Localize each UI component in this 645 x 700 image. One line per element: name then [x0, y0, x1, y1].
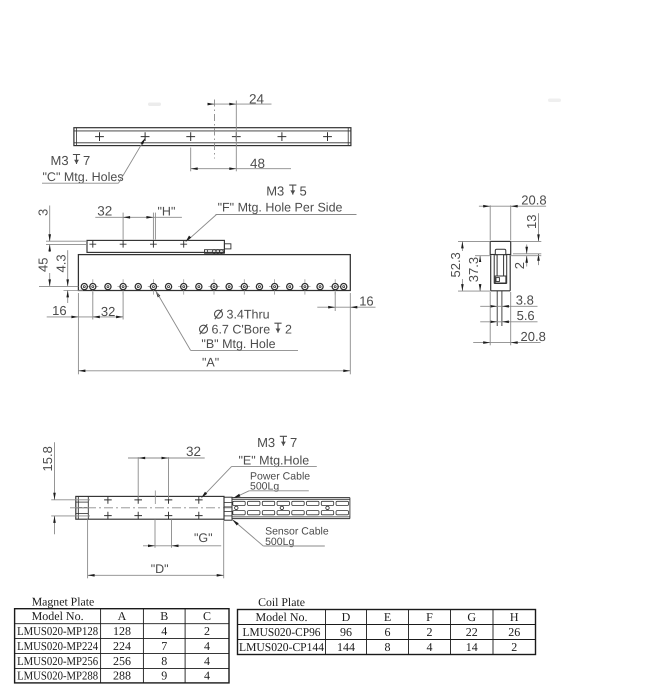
dimension 32 and H (coil plate holes) [95, 203, 182, 239]
dimension 20.8 (top width) [479, 193, 547, 241]
faint scan smudge [148, 103, 161, 107]
label Power Cable 500Lg with leader [233, 471, 310, 499]
dimension 3 (coil plate step) [36, 206, 88, 245]
svg-text:D: D [342, 610, 351, 624]
magnet plate table title [32, 595, 95, 609]
svg-text:Model No.: Model No. [32, 609, 84, 623]
label "C" Mtg. Holes with leader [42, 138, 146, 184]
dimension 4.3 (hole line to bottom) [39, 250, 83, 303]
svg-text:LMUS020-MP256: LMUS020-MP256 [17, 654, 98, 668]
svg-text:LMUS020-MP224: LMUS020-MP224 [17, 639, 98, 653]
svg-text:"E" Mtg.Hole: "E" Mtg.Hole [239, 454, 310, 468]
svg-text:26: 26 [508, 625, 520, 639]
dimension 16 (right edge to hole) [317, 292, 375, 374]
svg-text:4: 4 [427, 640, 433, 654]
svg-text:Model No.: Model No. [256, 610, 308, 624]
svg-text:48: 48 [250, 156, 265, 171]
coil plate left end cap [76, 496, 89, 519]
svg-text:7: 7 [161, 639, 167, 653]
svg-text:144: 144 [337, 640, 355, 654]
svg-text:7: 7 [83, 153, 90, 168]
label M3 depth 7 for E holes [257, 435, 297, 450]
svg-text:37.3: 37.3 [466, 257, 481, 282]
rail mounting hole crosses [95, 132, 332, 141]
svg-text:96: 96 [340, 625, 352, 639]
svg-text:LMUS020-MP288: LMUS020-MP288 [17, 669, 98, 683]
power and sensor cables (flex conduit) [232, 498, 350, 519]
dimension 37.3 (magnet plate height) [466, 256, 491, 291]
coil plate (top view) [76, 496, 224, 519]
coil plate cable connector block [205, 250, 225, 254]
svg-text:4: 4 [204, 669, 210, 683]
svg-text:3.8: 3.8 [516, 292, 534, 307]
svg-text:2: 2 [204, 624, 210, 638]
svg-text:4: 4 [204, 639, 210, 653]
svg-text:"C" Mtg. Holes: "C" Mtg. Holes [43, 170, 124, 184]
svg-text:16: 16 [52, 303, 66, 318]
svg-text:5: 5 [300, 184, 307, 199]
svg-text:E: E [384, 610, 391, 624]
svg-text:16: 16 [359, 293, 373, 308]
dimension 32 (E hole pitch) [128, 444, 205, 499]
magnet plate table [15, 609, 229, 683]
svg-text:"G": "G" [194, 531, 213, 545]
svg-text:32: 32 [101, 304, 115, 319]
dimension "D" [88, 519, 224, 578]
coil plate (side view) [87, 240, 224, 252]
svg-text:B: B [160, 609, 168, 623]
svg-text:"F" Mtg. Hole Per Side: "F" Mtg. Hole Per Side [218, 201, 343, 215]
dimension 13 (block height) [511, 213, 542, 265]
dimension 45 (overall height) [36, 244, 57, 286]
coil plate table title [258, 595, 305, 609]
svg-text:52.3: 52.3 [448, 252, 463, 277]
coil plate F mounting hole crosses [89, 241, 187, 248]
svg-text:G: G [467, 610, 476, 624]
svg-text:H: H [510, 610, 519, 624]
section: coil plate top block [490, 241, 511, 254]
dimension 52.3 (overall section height) [448, 241, 491, 291]
svg-text:M3: M3 [51, 153, 69, 168]
svg-text:8: 8 [385, 640, 391, 654]
label M3 depth 7 for C holes [51, 153, 91, 168]
svg-text:6.7 C'Bore: 6.7 C'Bore [212, 323, 271, 337]
svg-text:C: C [203, 609, 211, 623]
svg-text:LMUS020-CP96: LMUS020-CP96 [243, 625, 321, 639]
magnet plate B mounting holes row [81, 279, 347, 294]
svg-text:32: 32 [97, 203, 112, 218]
magnet plate body (side view) [78, 255, 350, 291]
svg-text:Magnet Plate: Magnet Plate [32, 595, 95, 609]
coil plate table [238, 610, 536, 655]
svg-text:9: 9 [161, 669, 167, 683]
svg-text:2: 2 [512, 262, 527, 269]
svg-text:20.8: 20.8 [521, 329, 546, 344]
svg-text:2: 2 [427, 625, 433, 639]
svg-text:3.4Thru: 3.4Thru [227, 308, 270, 322]
svg-text:"D": "D" [151, 562, 169, 576]
svg-text:256: 256 [113, 654, 131, 668]
svg-text:F: F [426, 610, 433, 624]
cable exit block [224, 497, 232, 520]
faint scan smudge 2 [548, 99, 561, 103]
svg-text:M3: M3 [266, 184, 284, 199]
svg-text:2: 2 [511, 640, 517, 654]
svg-text:3: 3 [36, 209, 51, 216]
dimension 2 (air gap) [510, 245, 541, 270]
svg-text:22: 22 [466, 625, 478, 639]
svg-text:4.3: 4.3 [54, 254, 69, 272]
svg-text:7: 7 [290, 435, 297, 450]
E mounting hole crosses (two rows) [104, 496, 203, 519]
svg-text:8: 8 [161, 654, 167, 668]
rail centerline [214, 100, 216, 159]
svg-text:13: 13 [524, 215, 539, 229]
svg-text:15.8: 15.8 [40, 446, 55, 471]
dimension "G" [143, 519, 221, 548]
svg-text:2: 2 [285, 323, 292, 337]
dimension 16 and 32 (left hole spacing) [47, 292, 123, 374]
svg-text:224: 224 [113, 639, 131, 653]
svg-text:4: 4 [204, 654, 210, 668]
plate centerline [70, 491, 232, 508]
svg-text:128: 128 [113, 624, 131, 638]
dimension 5.6 [480, 308, 537, 323]
svg-text:LMUS020-CP144: LMUS020-CP144 [239, 640, 324, 654]
dimension 15.8 (plate hole row spacing) [40, 442, 90, 534]
svg-text:6: 6 [385, 625, 391, 639]
svg-text:20.8: 20.8 [521, 193, 546, 208]
svg-text:M3: M3 [257, 435, 275, 450]
svg-text:5.6: 5.6 [517, 308, 535, 323]
svg-text:Coil Plate: Coil Plate [258, 595, 305, 609]
dimension 24 (rail hole to centerline) [208, 91, 272, 171]
label Sensor Cable 500Lg with leader [232, 519, 329, 548]
label "E" Mtg.Hole with leader [201, 454, 317, 499]
leader and callout for B mounting hole [155, 290, 298, 351]
section: magnet plate U channel [491, 255, 511, 291]
svg-text:"A": "A" [202, 356, 219, 370]
svg-text:LMUS020-MP128: LMUS020-MP128 [17, 624, 98, 638]
svg-text:"H": "H" [158, 205, 176, 219]
dimension 20.8 (bottom width) [473, 292, 546, 345]
svg-text:"B" Mtg. Hole: "B" Mtg. Hole [201, 337, 275, 351]
section: coil blade with head and foot [495, 249, 506, 283]
magnet rail (top side view) [74, 128, 351, 146]
svg-text:45: 45 [36, 258, 51, 272]
svg-text:A: A [118, 609, 127, 623]
svg-text:32: 32 [186, 444, 201, 459]
section: bottom tongue lines [497, 291, 502, 326]
label "F" Mtg. Hole Per Side with leader [185, 201, 356, 243]
svg-text:24: 24 [249, 91, 265, 106]
coil plate right tab [224, 244, 231, 249]
svg-text:14: 14 [466, 640, 478, 654]
label M3 depth 5 for F holes [266, 184, 307, 199]
svg-text:4: 4 [161, 624, 167, 638]
dimension "A" (overall length) [78, 356, 350, 373]
svg-text:288: 288 [113, 669, 131, 683]
dimension 48 (rail hole pitch) [191, 148, 291, 172]
dimension 3.8 (tongue width) [480, 292, 537, 307]
